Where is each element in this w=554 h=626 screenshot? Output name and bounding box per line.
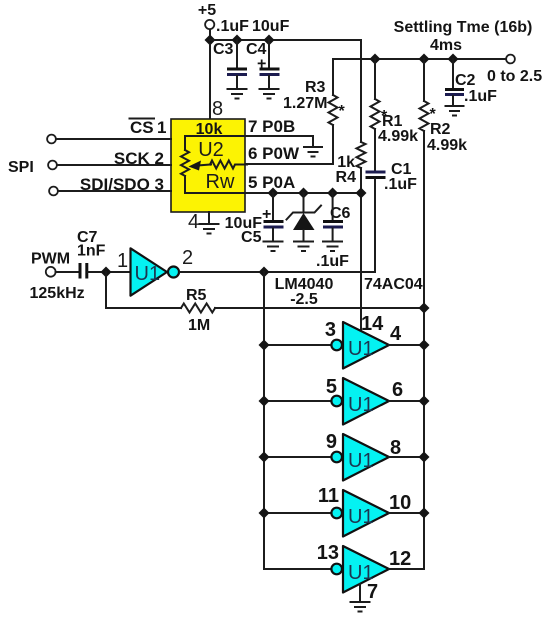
wire P0A rail	[245, 192, 361, 194]
svg-text:4.99k: 4.99k	[378, 128, 418, 145]
svg-text:6: 6	[392, 379, 403, 401]
capacitor C1	[366, 172, 386, 178]
ground pin 7	[351, 602, 370, 612]
svg-text:1.27M: 1.27M	[283, 95, 327, 112]
wire C1 bottom down to inverter output wire	[374, 179, 376, 272]
node R5 to right bus	[419, 303, 430, 314]
wire SCK	[57, 164, 171, 166]
wire pin 8 to U2	[209, 44, 211, 119]
wire C7 to inverter input	[88, 271, 129, 273]
svg-text:8: 8	[212, 98, 223, 120]
svg-text:C5: C5	[241, 229, 262, 246]
wire U2 internal bottom (element to P0A)	[185, 176, 245, 193]
resistor R5	[181, 304, 215, 313]
inverter U1 gate C	[331, 378, 389, 425]
capacitor C3	[213, 40, 247, 88]
resistor R3	[329, 95, 338, 125]
capacitor C7	[80, 263, 87, 279]
inverter U1 gate E	[331, 490, 389, 537]
svg-text:1M: 1M	[188, 317, 210, 334]
svg-text:U1: U1	[348, 450, 374, 472]
node output to left bus	[259, 267, 270, 278]
wire U2 internal top (element to P0B)	[185, 136, 245, 150]
wire output rail	[333, 58, 506, 60]
svg-text:.1uF: .1uF	[464, 88, 497, 105]
wire CS	[56, 138, 171, 140]
ground zener	[294, 242, 313, 252]
terminal CS	[47, 135, 56, 144]
wire pin 7 stub	[359, 584, 361, 601]
svg-text:3: 3	[325, 319, 336, 341]
svg-text:R4: R4	[336, 169, 357, 186]
ground pin 4	[200, 224, 219, 234]
svg-text:13: 13	[317, 542, 339, 564]
svg-text:*: *	[339, 103, 346, 120]
svg-text:Rw: Rw	[206, 171, 235, 193]
node C5 top	[268, 188, 279, 199]
capacitor C2	[445, 59, 476, 105]
node inverter 1 input / R5 tap	[101, 267, 112, 278]
svg-text:+5: +5	[198, 2, 216, 19]
wire SDI/SDO	[58, 190, 171, 192]
ground P0B	[304, 147, 322, 157]
wire input gate E	[264, 512, 331, 514]
svg-text:.1uF: .1uF	[216, 18, 249, 35]
svg-text:125kHz: 125kHz	[30, 285, 85, 302]
wire R1 bottom to C1	[374, 129, 376, 170]
node R2 top	[419, 54, 430, 65]
resistor R2	[420, 101, 429, 131]
svg-text:CS: CS	[130, 118, 154, 137]
ground C5	[264, 242, 283, 252]
svg-text:12: 12	[389, 548, 411, 570]
wire R3 bottom to P0W wire	[245, 125, 333, 164]
inverter U1 gate D	[331, 434, 389, 481]
terminal output 0 to 2.5	[506, 55, 515, 64]
svg-text:4ms: 4ms	[430, 37, 462, 54]
ground C3	[228, 89, 247, 99]
node zener top	[298, 188, 309, 199]
svg-text:C2: C2	[455, 72, 476, 89]
wire input gate D	[264, 456, 331, 458]
wire output gate E	[389, 512, 424, 514]
node C4 top	[264, 35, 275, 46]
node C3 top	[232, 35, 243, 46]
wire input gate B	[264, 344, 331, 346]
wire +5 horizontal rail	[210, 40, 361, 142]
wiper arrow	[189, 161, 212, 171]
svg-text:.1uF: .1uF	[316, 253, 349, 270]
terminal SCK	[48, 161, 57, 170]
svg-text:Settling Tme (16b): Settling Tme (16b)	[394, 19, 533, 36]
svg-text:11: 11	[318, 485, 339, 507]
ground C6	[323, 242, 342, 252]
wire R2 top stub	[423, 59, 425, 101]
svg-text:R2: R2	[430, 121, 451, 138]
node right bus gate C	[419, 396, 430, 407]
wire R3 branch from output rail down	[332, 59, 334, 95]
resistor R1	[371, 99, 380, 129]
svg-text:1nF: 1nF	[77, 243, 106, 260]
ground C4	[260, 89, 279, 99]
ground C2	[446, 106, 464, 116]
node C6 top	[327, 188, 338, 199]
inverter U1 gate A	[131, 248, 180, 295]
svg-text:10: 10	[389, 492, 411, 514]
wire +5 stem to rail	[209, 30, 211, 41]
svg-text:4: 4	[390, 323, 402, 345]
node right bus gate E	[419, 508, 430, 519]
svg-text:9: 9	[326, 431, 337, 453]
svg-text:7: 7	[367, 581, 378, 603]
svg-text:4.99k: 4.99k	[427, 137, 467, 154]
inverter U1 gate B	[331, 322, 389, 369]
node right bus gate D	[419, 452, 430, 463]
node left bus gate E	[259, 508, 270, 519]
svg-text:SPI: SPI	[8, 159, 34, 176]
zener diode LM4040	[287, 193, 322, 241]
node right bus gate B	[419, 340, 430, 351]
svg-text:R5: R5	[186, 287, 207, 304]
svg-text:-2.5: -2.5	[290, 291, 318, 308]
wire output gate F to right bus	[389, 568, 424, 570]
wire output gate D	[389, 456, 424, 458]
svg-text:5: 5	[326, 376, 337, 398]
svg-text:.1uF: .1uF	[384, 176, 417, 193]
svg-text:4: 4	[188, 211, 199, 233]
svg-text:2: 2	[182, 247, 193, 269]
svg-text:U1: U1	[135, 263, 161, 285]
terminal PWM	[46, 267, 56, 277]
svg-text:7 P0B: 7 P0B	[248, 117, 295, 136]
wire PWM to C7	[56, 271, 78, 273]
node R1 top	[370, 54, 381, 65]
node left bus gate B	[259, 340, 270, 351]
node P0A / R4 bottom	[356, 188, 367, 199]
svg-text:U1: U1	[348, 506, 374, 528]
svg-text:74AC04: 74AC04	[364, 276, 423, 293]
capacitor C4	[246, 40, 280, 88]
node C2 top	[448, 54, 459, 65]
wire output gate C	[389, 400, 424, 402]
label CS with overline	[130, 118, 167, 137]
resistor R4	[357, 142, 366, 168]
svg-text:U1: U1	[348, 394, 374, 416]
svg-text:1: 1	[157, 118, 166, 137]
inverter U1 gate F	[331, 546, 389, 593]
terminal SDI/SDO	[49, 187, 58, 196]
potentiometer element inside U2	[181, 150, 189, 176]
wire inverter 1 output to C1 bottom	[180, 271, 375, 273]
node left bus gate D	[259, 452, 270, 463]
svg-text:6 P0W: 6 P0W	[248, 144, 300, 163]
capacitor C6	[323, 193, 351, 241]
wire pin 4 stub	[208, 212, 210, 223]
svg-text:C3: C3	[213, 41, 234, 58]
svg-text:PWM: PWM	[31, 251, 70, 268]
wiper resistor Rw inside U2	[210, 161, 247, 169]
wire R5 to output bus	[215, 307, 424, 309]
svg-text:U1: U1	[348, 338, 374, 360]
+5 supply terminal	[198, 2, 216, 29]
svg-text:10uF: 10uF	[252, 18, 290, 35]
capacitor C5	[225, 193, 284, 246]
wire +5 rail lower segment through R4 down to pin 14	[360, 168, 362, 331]
node left bus gate C	[259, 396, 270, 407]
svg-text:0 to 2.5: 0 to 2.5	[487, 68, 542, 85]
svg-text:1: 1	[117, 250, 128, 272]
wire pin 7 P0B to ground	[245, 136, 313, 146]
wire left bus down	[264, 272, 331, 569]
svg-text:U2: U2	[198, 139, 224, 161]
wire R5 feedback	[106, 272, 181, 308]
svg-text:8: 8	[390, 437, 401, 459]
wire R1 top stub	[374, 59, 376, 99]
node +5 rail junction	[205, 35, 216, 46]
digipot U2 body	[171, 119, 245, 212]
wire R2 bottom down right bus	[423, 131, 425, 569]
wire output gate B	[389, 344, 424, 346]
svg-text:R3: R3	[305, 79, 326, 96]
wire input gate C	[264, 400, 331, 402]
